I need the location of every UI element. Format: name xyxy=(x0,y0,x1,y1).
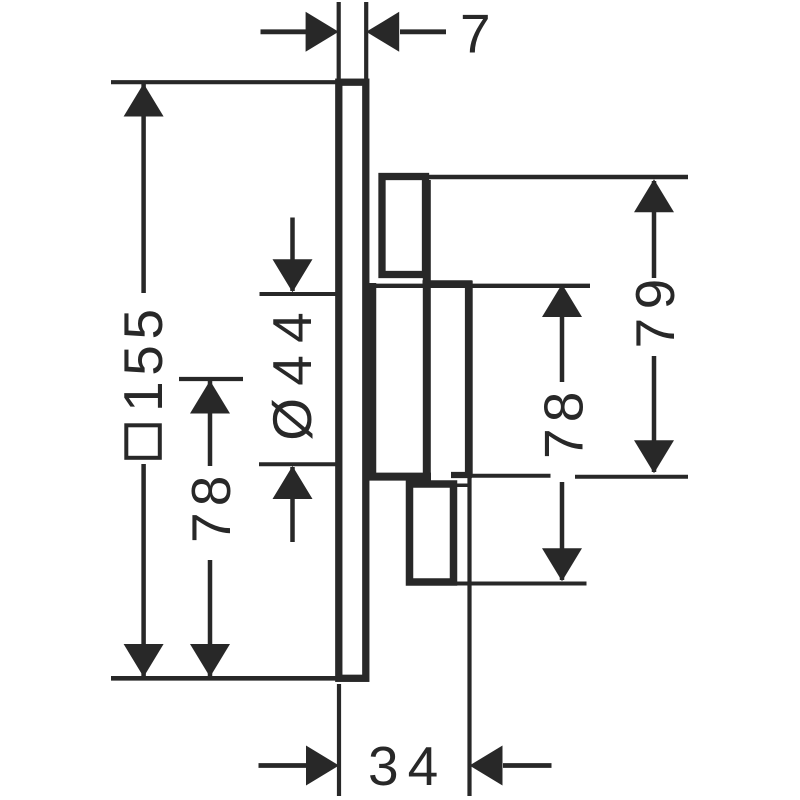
wire dim line 78-left lower xyxy=(208,560,213,676)
arrowhead d44 top (down) xyxy=(273,259,313,292)
wire dim line 78-right lower xyxy=(560,482,565,580)
arrowhead 78-left top (up) xyxy=(190,381,230,414)
wire ext line 79-dim bottom xyxy=(468,474,551,478)
arrowhead 78-right bottom (down) xyxy=(542,548,582,581)
wire shaft 34-dim left xyxy=(259,763,307,768)
wire ext line 79-dim bottom right part xyxy=(575,475,688,479)
wire ext line d44 bottom xyxy=(259,462,336,466)
square symbol of label 155 xyxy=(126,425,160,458)
wire shaft 7-dim left xyxy=(261,29,307,34)
wire dim line 79 upper xyxy=(652,181,657,278)
wall plate 155x155x7 side view xyxy=(339,82,366,678)
svg-text:7: 7 xyxy=(460,2,491,64)
wire dim line 155 lower segment xyxy=(141,464,146,676)
svg-text:79: 79 xyxy=(624,270,686,348)
wire dim line 78-left upper xyxy=(208,381,213,466)
arrowhead 155 top (up) xyxy=(124,84,164,117)
wire tick 78-left at plate centre xyxy=(179,377,243,381)
wire ext line 34-dim left xyxy=(337,684,341,796)
upper function stub xyxy=(382,177,426,275)
wire ext line 34-dim right xyxy=(467,477,471,796)
svg-text:78: 78 xyxy=(180,469,242,543)
wire ext line 78-right bottom xyxy=(450,582,587,586)
arrowhead d44 bottom (up) xyxy=(273,466,313,499)
arrowhead 34 right (left-pointing) xyxy=(470,746,503,786)
body bottom edge xyxy=(366,473,431,481)
wire dim line 79 lower xyxy=(652,356,657,472)
wire shaft 34-dim right xyxy=(503,763,552,768)
svg-text:34: 34 xyxy=(368,735,447,797)
thin edge right of lower stub xyxy=(450,484,470,488)
cartridge top edge xyxy=(423,280,472,288)
wire dim line d44 upper xyxy=(290,218,295,292)
arrowhead 7 right (left-pointing) xyxy=(366,12,399,52)
wire ext line 7-dim left xyxy=(337,2,341,79)
arrowhead 78-right top (up) xyxy=(542,284,582,317)
wire ext line d44 top xyxy=(260,292,338,296)
wire shaft 7-dim right xyxy=(400,29,446,34)
lower function stub xyxy=(410,484,454,582)
wire ext line 78-right/body top xyxy=(369,284,590,288)
arrowhead 79 top (up) xyxy=(634,179,674,212)
arrowhead 7 left (right-pointing) xyxy=(306,12,339,52)
cartridge bottom edge xyxy=(451,472,472,478)
cartridge left wall internal line xyxy=(423,180,431,480)
svg-text:155: 155 xyxy=(112,303,174,412)
wire ext line 155-dim top xyxy=(111,80,336,84)
arrowhead 155 bottom (down) xyxy=(124,644,164,677)
arrowhead 79 bottom (down) xyxy=(634,440,674,473)
arrowhead 78-left bottom (down) xyxy=(190,644,230,677)
wire ext line 155/78-dim bottom xyxy=(111,676,337,681)
body right wall xyxy=(465,281,473,475)
wire dim line 155 upper segment xyxy=(141,84,146,293)
body left wall xyxy=(369,283,377,477)
svg-text:Ø44: Ø44 xyxy=(261,300,323,441)
wire ext line 7-dim right xyxy=(364,2,368,79)
svg-text:78: 78 xyxy=(533,385,595,459)
wire dim line 78-right upper xyxy=(560,285,565,382)
wire ext line 79-dim top xyxy=(428,175,688,180)
wire dim line d44 lower xyxy=(290,467,295,542)
arrowhead 34 left (right-pointing) xyxy=(306,746,339,786)
